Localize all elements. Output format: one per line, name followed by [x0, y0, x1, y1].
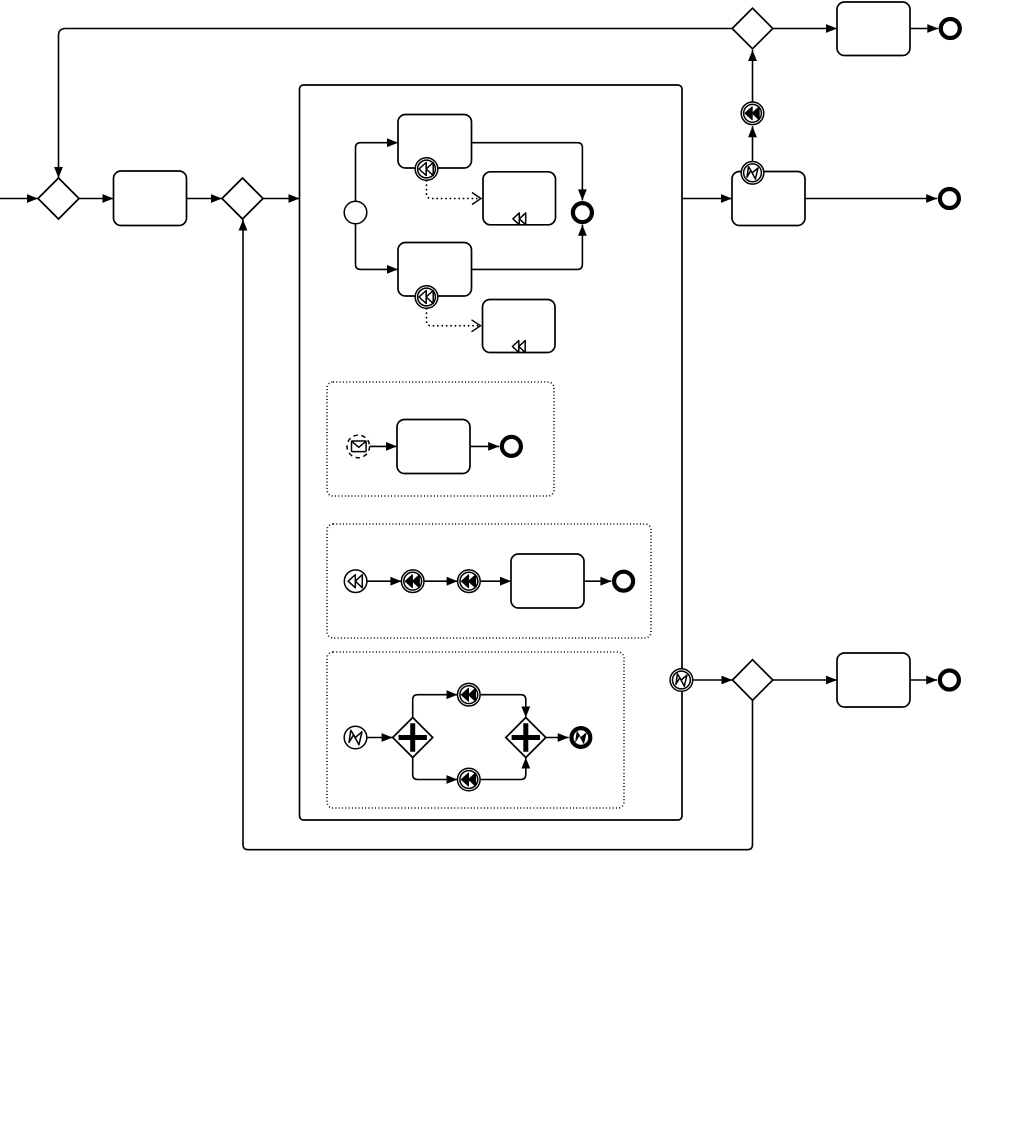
task T1up	[398, 115, 472, 169]
wire loop G4 to G2	[243, 220, 753, 850]
wire E2 to G3	[752, 50, 754, 102]
wire T4 to E4	[910, 679, 937, 681]
wire T3 to E3	[805, 198, 937, 200]
wire BE to G4	[693, 679, 733, 681]
wire T2 to E1	[472, 225, 583, 270]
wire G1 to T1	[79, 198, 114, 200]
wire G3 to Ttop	[773, 28, 837, 30]
end event EC	[614, 572, 633, 591]
wire CB2 to P2	[480, 758, 526, 780]
gateway G2 exclusive	[222, 178, 263, 219]
task TC2 compensation handler	[483, 300, 556, 353]
event subprocess ES3 (dotted)	[327, 652, 624, 808]
gateway G4 exclusive	[733, 660, 773, 701]
subprocess SP	[300, 85, 683, 820]
wire CB1 to P2	[480, 695, 526, 718]
task T2	[398, 243, 472, 297]
end event E4	[940, 671, 959, 690]
boundary compensation event B2	[415, 286, 438, 309]
task TCtask	[511, 554, 584, 608]
start event S1	[344, 201, 367, 224]
boundary error event B3 on T3	[741, 162, 764, 185]
wire P1 to CB2	[413, 758, 458, 780]
intermediate compensation throw event CT2	[458, 570, 481, 593]
wire start flow into G1	[0, 198, 38, 200]
wire CT2 to TCtask	[480, 580, 511, 582]
wire T1up to E1	[472, 143, 583, 201]
wire T1 to G2	[187, 198, 223, 200]
intermediate compensation throw event CB2	[458, 768, 481, 791]
wire flow G3 to G1 (top loop)	[59, 29, 733, 179]
error end event ErrEnd	[572, 728, 591, 747]
wire B3 to E2	[752, 126, 754, 161]
wire S1 to T2	[356, 224, 399, 270]
wire S1 to T1up	[356, 143, 399, 202]
wire SP to T3	[682, 198, 732, 200]
wire TM to EM	[470, 445, 499, 447]
wire G4 to T4	[773, 679, 837, 681]
wire P2 to ErrEnd	[546, 737, 569, 739]
wire MS to TM	[370, 445, 397, 447]
wire P1 to CB1	[413, 695, 458, 718]
association B2 to TC2	[427, 309, 481, 326]
wire G2 to subprocess	[263, 198, 300, 200]
intermediate compensation throw event CB1	[458, 683, 481, 706]
task T3	[732, 172, 805, 226]
parallel gateway P1	[393, 718, 433, 758]
intermediate compensation throw event CT1	[401, 570, 424, 593]
end event Etop	[941, 19, 960, 38]
wire CS to CT1	[367, 580, 402, 582]
compensation start event CS	[344, 570, 367, 593]
task Ttop	[837, 2, 910, 56]
gateway G3 exclusive	[732, 8, 773, 49]
message start event MS (non-interrupting, dashed)	[347, 435, 370, 458]
wire CT1 to CT2	[424, 580, 458, 582]
end event E1	[573, 203, 592, 222]
event subprocess ES1 (dotted)	[327, 382, 554, 496]
intermediate compensation throw event E2	[741, 102, 764, 125]
wire ErrS to P1	[367, 737, 393, 739]
end event E3	[940, 189, 959, 208]
gateway G1 exclusive	[38, 178, 79, 219]
task TM	[397, 420, 470, 474]
task TC1 compensation handler	[483, 172, 556, 225]
task T4	[837, 653, 910, 707]
event subprocess ES2 (dotted)	[327, 524, 651, 638]
boundary compensation event B1	[415, 158, 438, 181]
parallel gateway P2	[506, 718, 546, 758]
wire Ttop to Etop	[910, 28, 938, 30]
association B1 to TC1	[427, 181, 482, 199]
boundary error event BE on subprocess	[670, 669, 693, 692]
task T1	[114, 171, 187, 226]
wire TCtask to EC	[584, 580, 611, 582]
end event EM	[502, 437, 521, 456]
error start event ErrS	[344, 726, 367, 749]
